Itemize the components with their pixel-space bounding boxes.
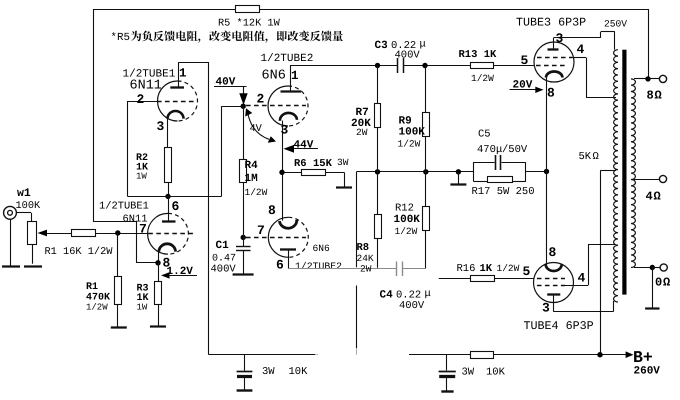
svg-text:7: 7 (139, 222, 147, 237)
svg-text:2: 2 (257, 92, 265, 107)
svg-text:100K: 100K (394, 214, 421, 226)
svg-text:2W: 2W (356, 127, 368, 138)
svg-text:6N6: 6N6 (313, 243, 331, 254)
svg-text:R1: R1 (86, 282, 98, 293)
svg-text:5: 5 (523, 264, 531, 279)
svg-text:C4: C4 (380, 290, 394, 302)
svg-text:3W: 3W (337, 157, 349, 168)
svg-text:5K: 5K (579, 151, 592, 163)
svg-text:8: 8 (547, 86, 555, 101)
svg-text:1.2V: 1.2V (167, 266, 194, 278)
svg-text:2W: 2W (360, 264, 372, 275)
svg-text:C3: C3 (375, 40, 389, 52)
svg-text:1/2W: 1/2W (398, 139, 421, 150)
svg-text:470: 470 (477, 144, 496, 156)
svg-text:1: 1 (291, 69, 299, 83)
svg-text:1M: 1M (245, 173, 259, 185)
svg-text:R16: R16 (457, 263, 476, 275)
svg-text:Ω: Ω (593, 151, 599, 163)
svg-text:1/2W: 1/2W (497, 263, 520, 274)
svg-text:8: 8 (549, 245, 557, 260)
svg-text:5: 5 (521, 53, 529, 68)
svg-text:/50V: /50V (502, 144, 528, 156)
svg-text:8: 8 (647, 89, 654, 103)
svg-text:1W: 1W (136, 172, 147, 182)
svg-text:TUBE3 6P3P: TUBE3 6P3P (516, 16, 586, 30)
svg-text:Ω: Ω (654, 190, 661, 204)
svg-text:260V: 260V (634, 366, 661, 378)
svg-text:400V: 400V (211, 264, 237, 276)
svg-text:μ: μ (425, 288, 431, 300)
svg-text:6: 6 (276, 258, 284, 273)
svg-text:0: 0 (655, 276, 662, 290)
svg-text:44V: 44V (294, 140, 314, 152)
svg-text:100K: 100K (399, 127, 426, 139)
svg-text:Ω: Ω (655, 89, 662, 103)
svg-text:10K: 10K (289, 366, 309, 378)
svg-text:1/2W: 1/2W (245, 187, 268, 198)
svg-text:100K: 100K (16, 200, 42, 212)
svg-text:3: 3 (281, 123, 289, 138)
svg-text:3W: 3W (262, 366, 275, 378)
svg-text:Ω: Ω (663, 276, 670, 290)
svg-text:R5 *12K 1W: R5 *12K 1W (218, 18, 281, 30)
svg-text:4: 4 (577, 42, 585, 57)
svg-text:R6: R6 (294, 158, 307, 170)
svg-text:24K: 24K (357, 253, 374, 264)
svg-text:3: 3 (157, 119, 165, 134)
svg-text:7: 7 (257, 223, 265, 238)
svg-text:6N11: 6N11 (130, 79, 162, 94)
svg-text:8: 8 (268, 203, 276, 218)
svg-text:1: 1 (179, 67, 187, 81)
svg-text:6N6: 6N6 (262, 69, 286, 84)
svg-text:3W: 3W (462, 367, 475, 379)
svg-text:2: 2 (137, 92, 145, 107)
svg-text:B+: B+ (633, 348, 653, 367)
svg-text:R12: R12 (395, 203, 414, 215)
svg-text:400V: 400V (395, 50, 421, 62)
svg-text:10K: 10K (486, 367, 506, 379)
svg-text:15K: 15K (313, 158, 333, 170)
svg-text:C5: C5 (478, 129, 491, 141)
svg-text:R17 5W 250: R17 5W 250 (472, 186, 535, 198)
svg-text:*R5: *R5 (111, 32, 130, 44)
svg-text:6: 6 (172, 199, 180, 214)
svg-text:3: 3 (542, 301, 550, 316)
svg-text:4: 4 (646, 190, 653, 204)
svg-text:1/2W: 1/2W (395, 226, 418, 237)
svg-text:R13 1K: R13 1K (459, 49, 498, 61)
svg-text:4: 4 (578, 271, 586, 286)
svg-text:1/2W: 1/2W (471, 73, 494, 84)
svg-text:1/2W: 1/2W (86, 303, 108, 313)
svg-text:250V: 250V (604, 19, 627, 30)
svg-text:1/2TUBE1: 1/2TUBE1 (99, 201, 149, 213)
svg-text:w1: w1 (17, 187, 31, 200)
svg-text:C1: C1 (216, 240, 230, 252)
svg-text:R4: R4 (245, 160, 259, 172)
svg-text:3: 3 (556, 31, 564, 46)
svg-text:R1 16K 1/2W: R1 16K 1/2W (45, 246, 114, 258)
svg-text:1/2TUBE2: 1/2TUBE2 (295, 261, 342, 272)
svg-text:TUBE4 6P3P: TUBE4 6P3P (524, 319, 594, 333)
svg-text:μ: μ (420, 39, 426, 51)
svg-text:1/2TUBE2: 1/2TUBE2 (261, 53, 314, 65)
svg-text:1W: 1W (137, 303, 148, 313)
svg-text:400V: 400V (399, 300, 425, 312)
svg-text:1K: 1K (480, 263, 493, 275)
